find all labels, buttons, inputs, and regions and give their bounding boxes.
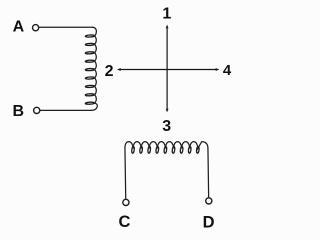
svg-text:D: D xyxy=(203,213,215,231)
L2 turn 9 (narrow loop ellipse) xyxy=(196,146,199,153)
svg-text:C: C xyxy=(119,213,131,231)
wire from coil L2 right end down to terminal D xyxy=(207,149,210,198)
L1 turn 4 (flat loop ellipse) xyxy=(85,60,94,62)
svg-text:4: 4 xyxy=(223,62,232,79)
arrowhead pointing left (direction 2) xyxy=(117,68,121,71)
wire from terminal A to coil L1 top xyxy=(39,26,92,28)
L1 turn 8 (flat loop ellipse) xyxy=(85,94,94,96)
terminal B (open circle) xyxy=(34,107,40,113)
L2 turn 8 (narrow loop ellipse) xyxy=(188,146,191,153)
svg-text:B: B xyxy=(13,103,25,120)
arrowhead pointing down (direction 3) xyxy=(166,109,169,113)
arrowhead pointing up (direction 1) xyxy=(166,25,169,29)
L2 turn 6 (narrow loop ellipse) xyxy=(172,146,175,153)
L2 turn 7 (narrow loop ellipse) xyxy=(180,146,183,153)
terminal C (open circle) xyxy=(123,199,129,205)
L2 turn 2 (narrow loop ellipse) xyxy=(140,146,143,153)
L1 turn 2 (flat loop ellipse) xyxy=(85,43,94,45)
svg-text:2: 2 xyxy=(105,63,114,80)
L1 turn 7 (flat loop ellipse) xyxy=(85,85,94,87)
svg-text:1: 1 xyxy=(162,6,171,23)
L2 turn 3 (narrow loop ellipse) xyxy=(148,146,151,153)
L1 turn 3 (flat loop ellipse) xyxy=(85,52,94,54)
wire from terminal C up to coil L2 left end xyxy=(124,149,127,200)
wire from coil L1 bottom to terminal B xyxy=(40,109,91,111)
L2 turn 5 (narrow loop ellipse) xyxy=(164,146,167,153)
terminal A (open circle) xyxy=(33,25,39,31)
arrowhead pointing right (direction 4) xyxy=(216,68,220,71)
L1 turn 9 (flat loop ellipse) xyxy=(85,102,94,104)
inductor L2 body (horizontal coil humps) xyxy=(125,142,208,149)
svg-text:3: 3 xyxy=(162,118,171,135)
axis arrow shaft 1-3 (vertical) xyxy=(166,28,168,109)
L1 turn 5 (flat loop ellipse) xyxy=(85,68,94,70)
axis arrow shaft 2-4 (horizontal) xyxy=(120,69,216,71)
L1 turn 6 (flat loop ellipse) xyxy=(85,77,94,79)
L2 turn 1 (narrow loop ellipse) xyxy=(131,146,134,153)
L2 turn 4 (narrow loop ellipse) xyxy=(156,146,159,153)
L1 turn 1 (flat loop ellipse) xyxy=(85,35,94,37)
svg-text:A: A xyxy=(13,19,25,36)
inductor L1 body (vertical coil right rail with turns) xyxy=(91,27,97,110)
terminal D (open circle) xyxy=(206,198,212,204)
